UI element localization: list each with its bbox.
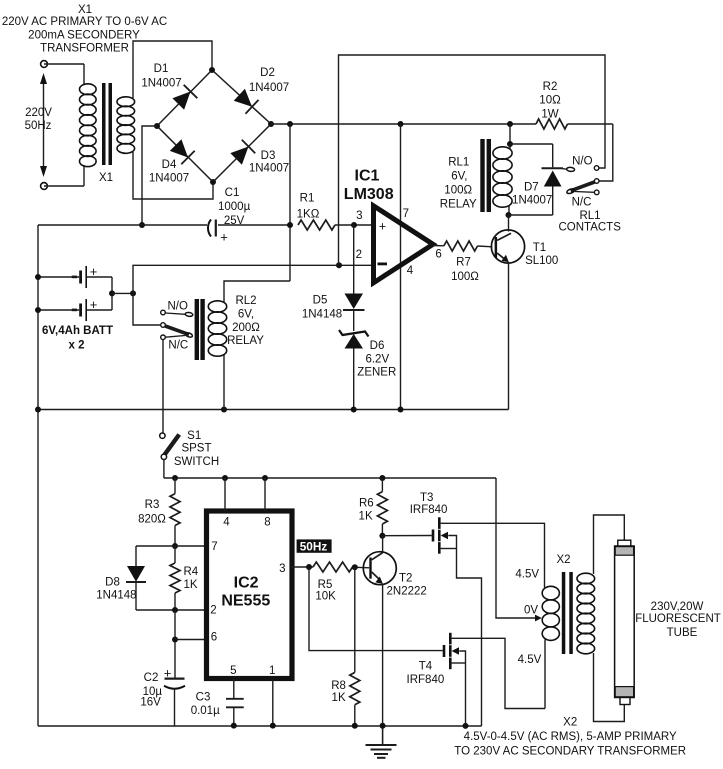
capacitor C3 xyxy=(226,698,244,700)
svg-text:1: 1 xyxy=(269,665,275,677)
svg-text:50Hz: 50Hz xyxy=(300,539,328,553)
svg-text:D3: D3 xyxy=(261,150,276,162)
resistor R2 xyxy=(536,119,568,129)
svg-text:D8: D8 xyxy=(105,577,120,589)
relay RL1 contact N/C xyxy=(594,190,599,195)
wire xyxy=(509,214,553,216)
junction battery positive xyxy=(109,290,115,296)
svg-text:4.5V: 4.5V xyxy=(515,569,539,581)
wire xyxy=(594,515,625,574)
junction xyxy=(507,121,513,127)
svg-text:2: 2 xyxy=(356,249,362,261)
wire xyxy=(441,548,457,550)
junction T2 collector node xyxy=(379,533,385,539)
svg-text:220V: 220V xyxy=(25,107,52,119)
transformer X1 secondary winding xyxy=(117,97,135,107)
svg-text:6V,: 6V, xyxy=(451,171,467,183)
svg-text:IRF840: IRF840 xyxy=(407,674,445,686)
svg-text:TRANSFORMER: TRANSFORMER xyxy=(40,43,129,55)
wire xyxy=(133,41,212,98)
junction xyxy=(352,564,358,570)
svg-text:100Ω: 100Ω xyxy=(444,185,472,197)
wire T3 drain xyxy=(441,523,545,587)
wire xyxy=(465,663,467,726)
wire xyxy=(135,546,137,566)
svg-text:6: 6 xyxy=(211,632,217,644)
svg-text:5: 5 xyxy=(230,665,236,677)
svg-text:1K: 1K xyxy=(184,579,198,591)
svg-text:FLUORESCENT: FLUORESCENT xyxy=(635,613,721,625)
svg-text:4: 4 xyxy=(223,517,230,529)
op-amp U1 IC1 LM308 xyxy=(374,206,434,283)
resistor R7 xyxy=(444,241,478,251)
svg-text:IRF840: IRF840 xyxy=(410,504,448,516)
resistor R4 xyxy=(170,563,180,593)
junction xyxy=(172,607,178,613)
svg-text:RELAY: RELAY xyxy=(227,335,264,347)
svg-text:6.2V: 6.2V xyxy=(365,354,389,366)
switch S1 xyxy=(160,433,165,438)
zener D6 xyxy=(339,330,369,337)
junction xyxy=(398,407,404,413)
wire bridge edge xyxy=(157,126,213,182)
svg-text:SL100: SL100 xyxy=(525,255,558,267)
wire switched supply bus xyxy=(164,477,496,479)
wire pin4 xyxy=(224,478,226,511)
wire xyxy=(87,309,112,311)
junction xyxy=(379,475,385,481)
junction T1 collector node xyxy=(506,212,512,218)
wire xyxy=(353,225,355,294)
junction xyxy=(172,475,178,481)
junction xyxy=(287,222,293,228)
transistor T4 IRF840 xyxy=(443,645,446,657)
wire xyxy=(174,546,176,563)
wire xyxy=(224,281,290,302)
svg-text:+: + xyxy=(379,220,386,234)
wire xyxy=(381,478,383,492)
wire xyxy=(509,124,511,144)
svg-text:RL1: RL1 xyxy=(448,157,469,169)
svg-text:7: 7 xyxy=(403,208,409,220)
svg-text:IC1: IC1 xyxy=(355,167,380,184)
relay RL2 contact N/C xyxy=(161,335,166,340)
junction bridge right xyxy=(268,121,274,127)
svg-text:T3: T3 xyxy=(420,492,433,504)
svg-text:3: 3 xyxy=(279,563,285,575)
resistor R6 xyxy=(377,492,387,524)
wire xyxy=(478,245,493,248)
diode D2 xyxy=(234,89,252,107)
svg-text:D5: D5 xyxy=(313,295,328,307)
wire negative bus xyxy=(38,224,207,226)
wire T4 gate feed xyxy=(309,567,443,651)
svg-text:1N4007: 1N4007 xyxy=(512,195,552,207)
transformer X1 primary winding xyxy=(80,84,97,95)
svg-text:RL2: RL2 xyxy=(235,295,256,307)
svg-text:1N4148: 1N4148 xyxy=(96,590,136,602)
battery cell 2 xyxy=(79,304,82,317)
IC U2 IC2 NE555 xyxy=(207,511,293,679)
svg-text:1N4007: 1N4007 xyxy=(249,82,289,94)
svg-text:1N4148: 1N4148 xyxy=(302,309,342,321)
wire xyxy=(218,224,290,226)
relay RL1 pole pad xyxy=(566,188,575,194)
svg-text:C2: C2 xyxy=(144,672,159,684)
wire xyxy=(272,679,274,726)
junction xyxy=(262,475,268,481)
wire pin7 xyxy=(136,545,206,547)
wire xyxy=(44,185,84,187)
wire T4 source xyxy=(459,651,465,663)
wire xyxy=(594,653,625,722)
wire R8 top xyxy=(354,567,356,672)
wire xyxy=(335,224,374,226)
relay RL2 contact pole xyxy=(161,323,166,328)
wire xyxy=(552,187,554,216)
junction bridge top xyxy=(209,67,215,73)
wire xyxy=(508,206,510,215)
relay RL2 core xyxy=(195,299,199,360)
junction xyxy=(306,564,312,570)
svg-text:8: 8 xyxy=(264,517,270,529)
wire xyxy=(353,310,355,331)
node 50Hz xyxy=(297,539,332,552)
wire RL2 N/C to S1 xyxy=(162,340,164,434)
junction xyxy=(35,307,41,313)
svg-text:D6: D6 xyxy=(370,340,385,352)
wire battery+ to pin2 xyxy=(133,265,374,293)
diode D1 xyxy=(172,92,190,110)
junction pin2 node xyxy=(336,262,342,268)
wire xyxy=(568,123,613,125)
wire xyxy=(382,536,384,552)
resistor R1 xyxy=(298,220,335,230)
svg-text:230V,20W: 230V,20W xyxy=(651,601,704,613)
transformer X1 core xyxy=(102,83,106,165)
svg-text:820Ω: 820Ω xyxy=(138,514,166,526)
wire left rail xyxy=(37,225,39,726)
wire xyxy=(87,276,112,278)
svg-text:4.5V-0-4.5V (AC RMS), 5-AMP PR: 4.5V-0-4.5V (AC RMS), 5-AMP PRIMARY xyxy=(464,731,677,743)
svg-text:S1: S1 xyxy=(187,430,201,442)
wire xyxy=(433,245,444,247)
junction xyxy=(231,723,237,729)
junction xyxy=(351,407,357,413)
battery cell 1 xyxy=(79,271,82,284)
svg-text:2N2222: 2N2222 xyxy=(387,586,427,598)
relay RL1 contact N/O xyxy=(594,166,599,171)
svg-text:TUBE: TUBE xyxy=(667,627,698,639)
svg-text:1W: 1W xyxy=(541,109,558,121)
wire xyxy=(223,355,225,410)
svg-text:T4: T4 xyxy=(419,661,433,673)
relay RL2 coil xyxy=(208,301,226,312)
svg-text:T1: T1 xyxy=(533,242,546,254)
wire xyxy=(38,276,79,278)
svg-text:SPST: SPST xyxy=(181,442,211,454)
wire xyxy=(289,124,291,281)
resistor R8 xyxy=(350,672,360,704)
svg-text:N/C: N/C xyxy=(572,197,592,209)
wire T3 source xyxy=(448,536,456,549)
junction xyxy=(270,723,276,729)
svg-text:1K: 1K xyxy=(332,692,346,704)
svg-text:4.5V: 4.5V xyxy=(518,654,542,666)
svg-text:D2: D2 xyxy=(260,67,275,79)
transistor T2 2N2222 xyxy=(363,552,396,585)
svg-text:D7: D7 xyxy=(524,182,539,194)
svg-text:7: 7 xyxy=(211,541,217,553)
svg-text:100Ω: 100Ω xyxy=(451,271,479,283)
ground xyxy=(382,726,384,745)
relay RL2 pole pad xyxy=(185,332,193,338)
junction xyxy=(221,407,227,413)
wire xyxy=(111,293,113,310)
wire bottom bus xyxy=(38,725,482,727)
junction bridge left xyxy=(154,123,160,129)
wire xyxy=(233,707,235,725)
wire T3 gate feed xyxy=(382,535,431,537)
svg-text:+: + xyxy=(164,666,172,681)
svg-text:RL1: RL1 xyxy=(579,210,600,222)
svg-text:R7: R7 xyxy=(456,256,471,268)
terminal AC input bottom xyxy=(41,183,48,190)
wire xyxy=(353,566,370,569)
wire battery+ top rail xyxy=(339,55,606,265)
svg-text:X2: X2 xyxy=(556,554,570,566)
wire bridge edge xyxy=(212,70,271,124)
svg-text:4: 4 xyxy=(407,265,414,277)
junction xyxy=(463,723,469,729)
0V tap arrow xyxy=(535,615,542,622)
wire xyxy=(174,689,176,726)
svg-text:ZENER: ZENER xyxy=(357,367,396,379)
svg-text:1KΩ: 1KΩ xyxy=(297,209,320,221)
wire +V rail xyxy=(271,123,536,125)
svg-text:1K: 1K xyxy=(359,510,373,522)
svg-text:x 2: x 2 xyxy=(69,340,85,352)
svg-text:50Hz: 50Hz xyxy=(25,120,52,132)
svg-text:R6: R6 xyxy=(359,498,374,510)
svg-text:6V,4Ah BATT: 6V,4Ah BATT xyxy=(42,325,113,337)
wire pin2 IC2 xyxy=(136,609,206,611)
junction xyxy=(380,723,386,729)
diode D8 xyxy=(127,566,145,582)
svg-text:SWITCH: SWITCH xyxy=(174,456,219,468)
junction xyxy=(172,637,178,643)
node 220V 50Hz annotation arrow xyxy=(43,80,45,170)
resistor R5 xyxy=(313,562,353,572)
capacitor C1 xyxy=(208,220,211,237)
junction xyxy=(139,222,145,228)
diode D5 xyxy=(345,294,364,310)
wire xyxy=(38,309,79,311)
svg-text:0V: 0V xyxy=(524,605,538,617)
svg-text:R5: R5 xyxy=(318,579,333,591)
svg-text:200mA SECONDERY: 200mA SECONDERY xyxy=(28,30,140,42)
transistor T3 IRF840 xyxy=(432,530,435,542)
svg-text:TO 230V AC SECONDARY TRANSFORM: TO 230V AC SECONDARY TRANSFORMER xyxy=(454,746,686,758)
wire xyxy=(174,610,176,678)
svg-text:10K: 10K xyxy=(315,591,336,603)
transformer X2 secondary winding xyxy=(577,573,595,584)
svg-text:220V AC PRIMARY TO 0-6V AC: 220V AC PRIMARY TO 0-6V AC xyxy=(2,16,167,28)
diode D7 xyxy=(542,167,564,169)
wire xyxy=(552,144,554,167)
svg-text:2: 2 xyxy=(210,604,216,616)
wire xyxy=(174,593,176,610)
wire xyxy=(291,566,313,568)
svg-text:NE555: NE555 xyxy=(221,593,270,610)
wire xyxy=(599,124,613,181)
transistor T1 SL100 xyxy=(491,230,524,263)
junction xyxy=(352,723,358,729)
wire xyxy=(233,679,235,699)
svg-text:25V: 25V xyxy=(224,215,245,227)
svg-text:16V: 16V xyxy=(140,697,161,709)
diode D3 xyxy=(230,147,248,165)
svg-text:IC2: IC2 xyxy=(234,575,259,592)
svg-text:1000µ: 1000µ xyxy=(218,201,251,213)
wire xyxy=(381,524,383,536)
svg-text:0.01µ: 0.01µ xyxy=(191,705,220,717)
svg-text:N/C: N/C xyxy=(168,340,188,352)
svg-text:LM308: LM308 xyxy=(344,186,394,203)
wire bridge edge xyxy=(157,70,212,126)
wire bridge edge xyxy=(213,124,271,182)
wire battery+ to RL2 pole xyxy=(133,293,160,325)
lamp fluorescent tube xyxy=(618,540,631,546)
svg-text:D4: D4 xyxy=(162,159,177,171)
svg-text:R3: R3 xyxy=(145,499,160,511)
wire xyxy=(174,526,176,547)
relay RL1 coil xyxy=(493,147,512,159)
wire T1 emitter xyxy=(508,262,510,410)
capacitor C2 xyxy=(165,677,185,679)
wire pin6 IC2 xyxy=(175,639,206,641)
wire mid bus xyxy=(38,409,509,411)
diode D4 xyxy=(170,139,188,157)
svg-text:R4: R4 xyxy=(184,566,199,578)
wire xyxy=(353,349,355,410)
svg-text:C1: C1 xyxy=(225,187,240,199)
wire T2 emitter xyxy=(382,584,384,727)
wire xyxy=(510,143,553,145)
junction xyxy=(287,121,293,127)
svg-text:N/O: N/O xyxy=(572,156,593,168)
wire xyxy=(112,292,133,294)
wire T4 drain xyxy=(452,638,545,708)
wire xyxy=(83,64,85,85)
wire xyxy=(509,144,511,149)
wire xyxy=(44,63,84,65)
svg-text:D1: D1 xyxy=(154,63,169,75)
svg-text:+: + xyxy=(220,230,228,245)
wire xyxy=(452,662,466,664)
svg-text:X1: X1 xyxy=(78,4,92,16)
junction xyxy=(398,121,404,127)
svg-text:N/O: N/O xyxy=(167,301,188,313)
svg-text:R1: R1 xyxy=(300,192,315,204)
junction xyxy=(507,141,513,147)
svg-text:X2: X2 xyxy=(563,716,577,728)
wire xyxy=(83,165,85,186)
junction pin3 node xyxy=(351,222,357,228)
junction xyxy=(172,543,178,549)
wire xyxy=(111,277,113,293)
wire xyxy=(163,459,165,478)
wire xyxy=(354,705,356,726)
terminal AC input top xyxy=(41,61,48,68)
svg-text:1N4007: 1N4007 xyxy=(141,77,181,89)
wire to 0V tap xyxy=(496,478,537,618)
junction xyxy=(130,290,136,296)
svg-text:RELAY: RELAY xyxy=(440,199,477,211)
svg-text:6V,: 6V, xyxy=(238,309,254,321)
wire xyxy=(133,152,213,199)
svg-text:T2: T2 xyxy=(399,573,412,585)
junction xyxy=(35,274,41,280)
transformer X2 primary winding xyxy=(542,586,559,600)
svg-text:1N4007: 1N4007 xyxy=(149,173,189,185)
wire xyxy=(142,126,157,225)
wire pin8 xyxy=(264,478,266,511)
relay RL1 contact pole xyxy=(594,179,599,184)
wire xyxy=(508,215,510,232)
svg-text:R8: R8 xyxy=(331,680,346,692)
wire xyxy=(457,549,482,727)
resistor R3 xyxy=(170,494,180,526)
svg-text:1N4007: 1N4007 xyxy=(249,163,289,175)
junction bridge bottom xyxy=(210,179,216,185)
junction xyxy=(35,407,41,413)
svg-text:6: 6 xyxy=(435,249,441,261)
svg-text:C3: C3 xyxy=(196,692,211,704)
svg-text:X1: X1 xyxy=(99,172,113,184)
wire xyxy=(135,582,137,610)
svg-text:10Ω: 10Ω xyxy=(539,95,561,107)
relay RL1 core xyxy=(480,139,484,212)
svg-text:3: 3 xyxy=(356,210,362,222)
wire X2 primary bottom xyxy=(544,640,546,709)
svg-text:200Ω: 200Ω xyxy=(232,322,260,334)
wire xyxy=(174,478,176,494)
svg-text:R2: R2 xyxy=(543,81,558,93)
relay RL2 contact N/O xyxy=(161,310,166,315)
wire IC1 pin7/pin4 rail xyxy=(400,124,402,410)
transformer X2 core xyxy=(562,572,566,654)
svg-text:CONTACTS: CONTACTS xyxy=(558,222,621,234)
junction xyxy=(222,475,228,481)
